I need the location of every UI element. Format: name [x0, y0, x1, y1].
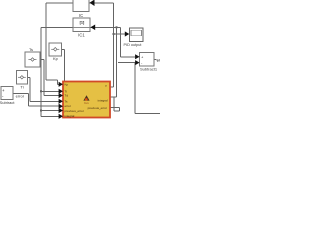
- arrowhead into IC block (right side): [90, 0, 95, 6]
- junction dot at IC1 branch in2: [40, 90, 42, 92]
- svg-text:Kp: Kp: [53, 56, 59, 61]
- arrowhead fcn in1: [59, 82, 63, 87]
- wire IC1 output left: [41, 26, 73, 28]
- svg-text:PID output: PID output: [124, 43, 143, 47]
- svg-text:Td: Td: [65, 94, 69, 98]
- arrowhead into IC1 block (right side): [91, 25, 96, 31]
- wire stray step bottom right of fcn: [113, 98, 115, 112]
- svg-text:IC1: IC1: [78, 33, 85, 38]
- wire branch to in6: [41, 110, 59, 112]
- wire IC net vertical: [45, 3, 47, 80]
- svg-text:Kp: Kp: [65, 82, 69, 86]
- wire Ti output: [27, 76, 30, 78]
- arrowhead fcn in2: [59, 89, 63, 94]
- wire IC net horizontal to stair: [46, 79, 57, 81]
- wire u feedback vertical V1: [110, 86, 114, 88]
- wire Td output: [40, 59, 44, 61]
- wire Subtract1 output to err: [154, 58, 156, 60]
- arrowhead fcn in4: [59, 99, 63, 104]
- arrowhead fcn in5: [59, 104, 63, 109]
- block Td slider gain: [25, 47, 40, 67]
- block MATLAB Function (orange PID fcn): [63, 82, 110, 119]
- svg-text:integral: integral: [65, 114, 75, 118]
- wire IC1 net vertical: [40, 27, 42, 116]
- wire stair down to in1: [56, 80, 58, 84]
- fcn icon flame: [83, 95, 89, 100]
- block Subtract: [0, 87, 15, 105]
- arrowhead fcn in6: [59, 108, 63, 113]
- junction dot at scope branch: [113, 33, 115, 35]
- svg-text:Ts: Ts: [29, 47, 33, 52]
- block Subtract1: [140, 52, 158, 71]
- svg-text:Ti: Ti: [20, 85, 23, 90]
- arrowhead Subtract1 in1: [135, 54, 140, 59]
- wire Subtract error output: [13, 92, 29, 94]
- wire branch to in2: [41, 90, 59, 92]
- block IC1 (mirrored initial-condition block): [73, 18, 90, 38]
- arrowhead fcn in7: [59, 114, 63, 119]
- junction dot at integral branch: [116, 26, 118, 28]
- wire corner to in7: [41, 115, 59, 117]
- wire integral feedback vertical V2: [110, 96, 117, 98]
- wire Kp gain output: [62, 48, 65, 50]
- svg-text:+: +: [2, 88, 5, 93]
- svg-text:Ts: Ts: [65, 99, 69, 103]
- svg-text:err: err: [157, 59, 160, 63]
- svg-text:Subtract1: Subtract1: [140, 67, 158, 72]
- svg-text:integral: integral: [98, 98, 108, 102]
- arrowhead Subtract1 in2: [135, 60, 140, 65]
- wire Subtract1 in2 net: [118, 62, 135, 64]
- svg-text:error: error: [16, 94, 25, 99]
- svg-text:previous_error: previous_error: [65, 109, 84, 113]
- junction dot at IC1 branch in6: [40, 110, 42, 112]
- block Scope PID output: [124, 28, 143, 47]
- wire IC output left: [46, 2, 73, 4]
- svg-text:error: error: [65, 104, 71, 108]
- svg-text:fun: fun: [84, 101, 89, 105]
- arrowhead into scope: [125, 31, 130, 36]
- wire branch to scope: [114, 33, 126, 35]
- svg-text:Subtract: Subtract: [0, 100, 15, 105]
- svg-text:IC: IC: [79, 13, 83, 18]
- svg-text:[1]: [1]: [80, 21, 85, 25]
- block Kp slider gain: [49, 43, 62, 61]
- block Ti slider gain: [16, 71, 27, 90]
- block IC (mirrored initial-condition block, top cut): [73, 0, 89, 18]
- svg-text:previous_error: previous_error: [88, 106, 107, 110]
- wire previous_error vertical V3: [110, 107, 120, 109]
- arrowhead fcn in3: [59, 93, 63, 98]
